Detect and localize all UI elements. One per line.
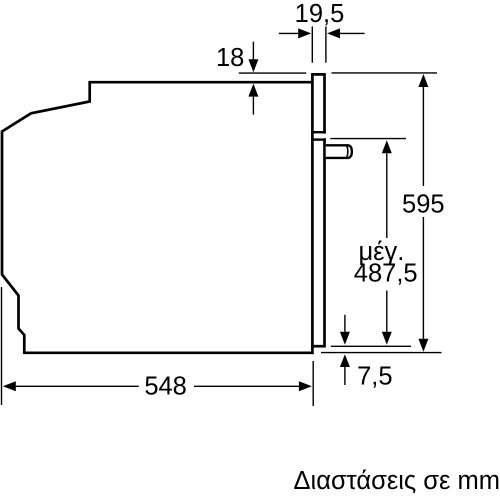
- svg-text:595: 595: [402, 191, 445, 219]
- dimension 19,5 left arrow: [279, 32, 298, 34]
- svg-text:7,5: 7,5: [357, 362, 392, 390]
- svg-text:19,5: 19,5: [295, 0, 345, 28]
- dimension 18 down arrow: [252, 42, 254, 60]
- svg-text:18: 18: [216, 44, 244, 72]
- panel rung upper: [311, 131, 326, 133]
- oven body outline: [2, 82, 314, 353]
- thin reference line: panel top level left segment: [239, 72, 306, 74]
- dimension 7,5 up arrow: [344, 367, 346, 385]
- front panel bar: [312, 74, 324, 346]
- panel rung lower: [311, 138, 326, 140]
- extension line 19,5 left: [311, 26, 313, 62]
- extension line 548 right: [312, 361, 314, 406]
- panel left edge step down to body bottom: [311, 345, 314, 354]
- knob inner arc: [347, 146, 348, 158]
- dimension 548 line: [16, 385, 139, 387]
- dimension 7,5 down arrow: [344, 315, 346, 332]
- dimension 18 up arrow: [252, 97, 254, 115]
- extension line 19,5 right: [325, 26, 327, 62]
- thin reference line: panel top level right segment: [332, 72, 438, 74]
- svg-text:548: 548: [144, 373, 187, 401]
- dimension 19,5 right arrow: [340, 32, 365, 34]
- svg-text:487,5: 487,5: [354, 260, 418, 288]
- door handle knob: [326, 145, 352, 158]
- thin reference line: knob top level (487,5 top): [330, 138, 406, 140]
- svg-text:Διαστάσεις σε mm: Διαστάσεις σε mm: [294, 467, 500, 495]
- thin reference line A: panel bottom level: [331, 345, 411, 347]
- dimension 595 line: [422, 87, 424, 186]
- extension line 548 left: [1, 287, 3, 405]
- thin reference line B: body bottom level: [321, 352, 442, 354]
- dimension 487,5 arrows: [386, 153, 388, 238]
- white gap on panel right edge between rungs: [323, 134, 329, 139]
